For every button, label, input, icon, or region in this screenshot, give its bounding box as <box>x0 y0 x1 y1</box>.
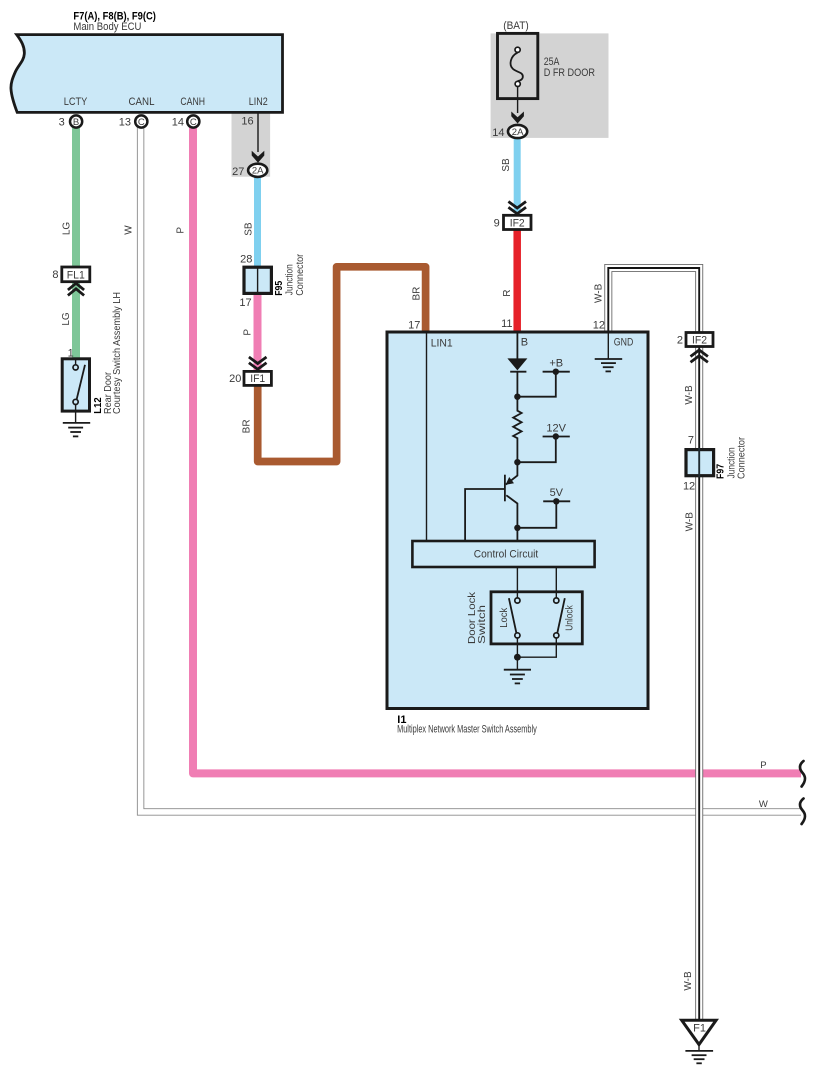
svg-text:C: C <box>190 117 197 128</box>
svg-text:Unlock: Unlock <box>565 604 576 630</box>
arrow into 2A oval (LIN2) <box>252 151 265 163</box>
svg-text:B: B <box>73 117 79 128</box>
svg-text:B: B <box>521 336 528 348</box>
junction dot 2 <box>514 459 520 465</box>
wire P from F95 to IF1 <box>254 293 262 372</box>
chevron toward FL1 (pointing up) <box>68 283 84 290</box>
+B terminal bar <box>543 371 570 373</box>
L12 switch blade <box>77 365 85 400</box>
chevron toward IF1 (pointing down) <box>249 357 267 364</box>
svg-text:CANH: CANH <box>180 96 205 108</box>
svg-text:17: 17 <box>408 319 420 331</box>
+B branch wire <box>517 372 555 397</box>
F97 wire stripe through box <box>698 448 700 478</box>
GND internal line <box>607 334 609 360</box>
ECU pin 13 circle C <box>135 115 147 127</box>
L12 internal top lead <box>75 359 77 365</box>
svg-text:2: 2 <box>677 335 683 347</box>
gray highlight box around battery fuse <box>491 33 609 137</box>
svg-text:+B: +B <box>549 358 563 370</box>
svg-text:D FR DOOR: D FR DOOR <box>544 67 595 79</box>
chevron toward IF2 connector (pointing up) <box>691 350 708 357</box>
ground symbol under L12 <box>63 422 90 424</box>
connector IF2 pin 2 box <box>686 333 713 347</box>
svg-text:W-B: W-B <box>684 512 695 532</box>
svg-text:P: P <box>175 227 186 234</box>
wire BR from IF1 to LIN1 <box>258 267 426 462</box>
svg-text:W-B: W-B <box>593 283 604 303</box>
I1 Multiplex Network Master Switch Assembly box <box>387 332 648 709</box>
ECU pin 3 circle B <box>70 115 82 127</box>
svg-text:3: 3 <box>59 116 65 128</box>
LIN1 internal line <box>426 334 428 542</box>
svg-text:IF2: IF2 <box>510 217 525 229</box>
svg-text:P: P <box>760 760 766 771</box>
svg-text:W-B: W-B <box>683 971 694 991</box>
svg-text:R: R <box>502 290 513 297</box>
fuse terminal circles <box>515 47 520 52</box>
junction dot 1 <box>514 394 520 400</box>
svg-text:12V: 12V <box>546 423 566 435</box>
svg-text:Courtesy Switch Assembly LH: Courtesy Switch Assembly LH <box>112 292 123 414</box>
svg-text:7: 7 <box>688 435 694 447</box>
svg-text:Multiplex Network Master Switc: Multiplex Network Master Switch Assembly <box>397 724 537 736</box>
svg-text:12: 12 <box>593 319 605 331</box>
2A oval (LIN2, pin 27) <box>248 164 267 177</box>
svg-text:12: 12 <box>683 481 695 493</box>
svg-text:F97: F97 <box>714 464 726 479</box>
ECU pin 14 circle C <box>187 115 199 127</box>
svg-text:LCTY: LCTY <box>64 96 88 108</box>
transistor Q base bar <box>504 475 506 502</box>
unlock switch contacts <box>554 598 559 603</box>
transistor collector diagonal from junction2 <box>506 462 518 484</box>
L12 lead to ground <box>75 404 77 423</box>
line diode to junction 1 <box>516 372 518 397</box>
wire W (CANL) white core <box>141 124 801 812</box>
svg-text:LG: LG <box>61 222 72 236</box>
5V terminal bar <box>543 500 570 502</box>
Door Lock Switch box <box>491 592 582 644</box>
lock switch contacts <box>515 598 520 603</box>
svg-text:F1: F1 <box>693 1023 706 1035</box>
5V branch wire <box>517 501 556 528</box>
F95 divider <box>257 268 259 293</box>
5V terminal dot <box>553 498 559 504</box>
wire R from IF2 to I1 box <box>513 229 521 335</box>
wire SB from 2A oval to F95 <box>254 174 261 268</box>
unlock switch blade <box>557 598 565 633</box>
svg-text:27: 27 <box>232 166 244 178</box>
junction connector F97 <box>686 450 714 476</box>
lines control circuit to door lock switch <box>516 567 518 598</box>
svg-text:IF2: IF2 <box>692 334 707 346</box>
lead from LIN2 pin 16 <box>257 114 259 153</box>
continuation brace W wire <box>800 799 805 825</box>
svg-text:W-B: W-B <box>684 385 695 405</box>
svg-text:Connector: Connector <box>737 436 748 479</box>
svg-text:Switch: Switch <box>477 605 488 644</box>
junction dot 3 <box>514 525 520 531</box>
svg-text:17: 17 <box>239 297 251 309</box>
svg-text:Connector: Connector <box>295 253 306 296</box>
ground symbol under F1 <box>685 1050 713 1052</box>
lead F1 to ground <box>698 1045 700 1051</box>
rear door courtesy switch L12 box <box>62 359 89 411</box>
svg-text:(BAT): (BAT) <box>503 20 529 32</box>
transistor base lead to control circuit <box>465 489 505 541</box>
svg-text:Lock: Lock <box>499 607 510 628</box>
svg-text:9: 9 <box>494 218 500 230</box>
B internal line to diode <box>516 334 518 360</box>
line junction3 to control circuit <box>516 528 518 541</box>
svg-text:14: 14 <box>172 116 184 128</box>
svg-text:2A: 2A <box>252 166 264 177</box>
resistor R internal <box>513 397 521 463</box>
continuation brace P wire <box>800 761 805 787</box>
svg-text:SB: SB <box>244 222 255 236</box>
+B terminal dot <box>553 369 559 375</box>
transistor emitter diagonal <box>506 495 517 528</box>
12V terminal bar <box>543 436 570 438</box>
svg-text:14: 14 <box>492 127 504 139</box>
svg-text:FL1: FL1 <box>67 269 85 281</box>
svg-text:W: W <box>123 225 134 235</box>
connector IF1 pin 20 box <box>244 371 271 385</box>
svg-text:BR: BR <box>412 287 423 301</box>
svg-text:C: C <box>138 117 145 128</box>
wire LG lower segment FL1 to L12 <box>72 281 80 360</box>
lock switch blade <box>509 598 517 633</box>
connector IF2 pin 9 box <box>504 215 532 229</box>
wire W-B long run from IF2 down to F1 <box>695 347 703 1021</box>
lead from fuse to arrow <box>517 87 519 114</box>
svg-text:GND: GND <box>614 337 634 349</box>
diode D (anode down) <box>507 358 527 370</box>
junction dot below switches <box>514 654 521 661</box>
svg-text:SB: SB <box>501 158 512 172</box>
Main Body ECU box F7/F8/F9 <box>11 35 283 113</box>
svg-text:LIN1: LIN1 <box>431 338 453 350</box>
svg-text:13: 13 <box>119 116 131 128</box>
lines below switches to junction <box>516 638 518 670</box>
svg-text:1: 1 <box>68 347 74 359</box>
svg-text:P: P <box>243 329 254 336</box>
svg-text:16: 16 <box>241 116 253 128</box>
svg-text:F95: F95 <box>273 281 285 296</box>
ground point F1 triangle <box>682 1020 716 1044</box>
wire P (CANH) <box>193 124 801 773</box>
svg-text:Control Circuit: Control Circuit <box>474 549 538 561</box>
svg-text:11: 11 <box>501 318 512 330</box>
wire LG (LCTY) upper segment <box>72 126 80 268</box>
fuse box 25A D FR DOOR <box>498 33 538 98</box>
svg-text:IF1: IF1 <box>250 373 265 385</box>
svg-text:8: 8 <box>52 269 58 281</box>
svg-text:CANL: CANL <box>129 96 155 108</box>
svg-text:28: 28 <box>240 254 252 266</box>
connector FL1 box <box>62 267 90 282</box>
wire SB from fuse 2A oval to IF2 <box>514 136 521 213</box>
fuse element S-curve <box>511 53 523 81</box>
svg-text:LG: LG <box>61 312 72 326</box>
12V terminal dot <box>553 433 559 439</box>
wire W-B from GND pin up and over to IF2 connector <box>608 268 699 334</box>
ground symbol at GND pin <box>595 358 623 360</box>
svg-text:W: W <box>759 799 768 810</box>
2A oval (fuse, pin 14) <box>508 125 527 138</box>
svg-text:5V: 5V <box>550 487 564 499</box>
svg-text:Main Body ECU: Main Body ECU <box>73 21 141 33</box>
arrow into 2A oval (fuse) <box>511 112 524 124</box>
svg-text:LIN2: LIN2 <box>249 96 268 108</box>
chevron toward IF2 pin 9 (pointing down) <box>508 202 526 209</box>
junction connector F95 <box>244 267 271 293</box>
12V branch wire <box>517 437 555 463</box>
svg-text:L12: L12 <box>92 397 104 413</box>
Control Circuit box <box>412 541 594 567</box>
svg-text:BR: BR <box>241 419 252 433</box>
gray highlight box under LIN2 pin 16 <box>232 112 271 177</box>
svg-text:2A: 2A <box>512 127 524 138</box>
L12 switch contacts <box>73 365 78 370</box>
wire W (CANL) outer <box>141 124 801 812</box>
transistor arrowhead <box>506 477 514 485</box>
ground symbol inside I1 below switches <box>504 669 531 671</box>
svg-text:20: 20 <box>229 373 241 385</box>
